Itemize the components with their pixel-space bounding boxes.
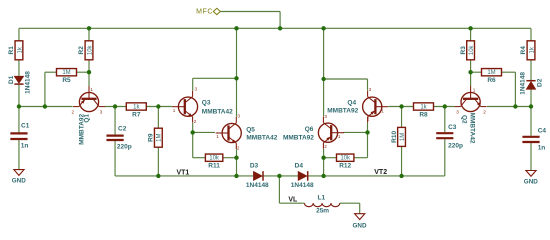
svg-text:MMBTA42: MMBTA42 [469,113,476,144]
svg-text:R2: R2 [78,46,85,55]
svg-text:D2: D2 [536,78,543,87]
svg-text:C2: C2 [118,125,127,132]
svg-text:3: 3 [456,109,459,114]
svg-text:R9: R9 [148,133,155,142]
svg-text:MFC: MFC [196,8,213,15]
svg-text:2: 2 [194,119,197,124]
svg-text:R10: R10 [391,131,398,143]
svg-text:1N4148: 1N4148 [291,182,314,189]
svg-text:10k: 10k [87,44,93,55]
svg-text:10k: 10k [209,156,220,162]
svg-text:1k: 1k [17,46,23,53]
svg-text:1N4148: 1N4148 [519,72,526,95]
svg-text:1M: 1M [157,134,163,142]
svg-text:3: 3 [369,87,372,92]
svg-text:GND: GND [12,178,26,185]
svg-text:R4: R4 [520,46,527,55]
svg-text:2: 2 [367,117,370,122]
svg-text:2: 2 [72,109,75,114]
svg-text:1n: 1n [538,145,546,152]
svg-text:MMBTA92: MMBTA92 [283,134,314,141]
svg-text:2: 2 [324,144,327,149]
svg-text:VT1: VT1 [176,170,189,177]
svg-text:MMBTA42: MMBTA42 [202,108,233,115]
svg-text:3: 3 [100,109,103,114]
svg-text:Q4: Q4 [347,100,356,107]
svg-text:Q3: Q3 [202,100,211,107]
svg-text:2: 2 [483,109,486,114]
svg-text:R12: R12 [339,163,351,170]
svg-text:220p: 220p [448,143,463,150]
svg-text:R3: R3 [460,46,467,55]
svg-text:3: 3 [324,114,327,119]
svg-text:10k: 10k [469,44,475,55]
svg-text:D1: D1 [8,75,15,84]
svg-text:1M: 1M [400,133,406,141]
svg-text:R5: R5 [62,77,71,84]
svg-text:R8: R8 [419,111,428,118]
svg-text:L1: L1 [318,194,326,201]
svg-text:Q1: Q1 [84,114,91,123]
svg-text:R1: R1 [8,46,15,55]
svg-text:1: 1 [473,88,476,93]
svg-text:VL: VL [288,197,298,204]
svg-text:Q2: Q2 [460,115,467,124]
svg-text:1M: 1M [62,70,70,76]
svg-text:1: 1 [216,134,219,139]
svg-text:1N4148: 1N4148 [24,71,31,94]
svg-text:1k: 1k [529,46,535,53]
svg-text:GND: GND [353,223,367,230]
svg-text:Q6: Q6 [305,126,314,133]
svg-text:D4: D4 [295,163,304,170]
svg-text:3: 3 [237,114,240,119]
svg-text:C4: C4 [538,127,547,134]
svg-text:1k: 1k [420,104,427,110]
svg-text:1: 1 [90,87,93,92]
svg-text:10k: 10k [340,156,351,162]
svg-text:3: 3 [195,87,198,92]
svg-text:MMBTA92: MMBTA92 [327,108,358,115]
svg-text:MMBTA42: MMBTA42 [246,134,277,141]
svg-text:VT2: VT2 [374,169,387,176]
svg-text:1: 1 [381,108,384,113]
svg-text:C3: C3 [448,124,457,131]
svg-text:1k: 1k [133,104,140,110]
svg-text:D3: D3 [250,163,259,170]
svg-text:1n: 1n [21,143,29,150]
svg-text:1: 1 [173,108,176,113]
svg-text:1M: 1M [487,70,495,76]
svg-text:R7: R7 [132,111,141,118]
svg-text:220p: 220p [117,143,132,150]
svg-text:R11: R11 [208,163,220,170]
svg-text:R6: R6 [487,77,496,84]
svg-text:Q5: Q5 [246,126,255,133]
svg-text:25m: 25m [316,208,329,215]
svg-text:2: 2 [237,145,240,150]
svg-text:C1: C1 [21,123,30,130]
svg-text:1N4148: 1N4148 [246,182,269,189]
svg-text:1: 1 [338,134,341,139]
svg-text:GND: GND [524,178,538,185]
